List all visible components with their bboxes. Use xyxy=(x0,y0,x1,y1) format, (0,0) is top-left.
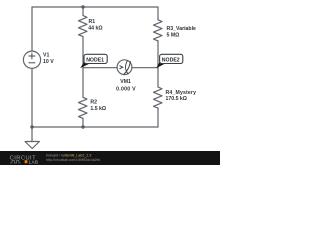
svg-text:http://circuitlab.com/c/59f53d: http://circuitlab.com/c/59f53dc4a2hb xyxy=(46,158,100,162)
svg-text:1.5 kΩ: 1.5 kΩ xyxy=(90,106,106,112)
svg-text:44 kΩ: 44 kΩ xyxy=(88,26,102,32)
svg-text:R3_Variable: R3_Variable xyxy=(167,26,197,32)
svg-text:170.5 kΩ: 170.5 kΩ xyxy=(166,96,187,102)
svg-text:NODE1: NODE1 xyxy=(86,57,104,63)
svg-text:VM1: VM1 xyxy=(120,79,131,85)
svg-text:0.000 V: 0.000 V xyxy=(116,86,136,92)
svg-text:LAB: LAB xyxy=(29,159,39,164)
svg-text:R2: R2 xyxy=(90,100,97,106)
svg-text:5 MΩ: 5 MΩ xyxy=(167,32,180,38)
svg-text:R4_Mystery: R4_Mystery xyxy=(166,90,197,96)
svg-text:bravard / voltsmtk_Lab2_2.3: bravard / voltsmtk_Lab2_2.3 xyxy=(46,153,91,157)
svg-text:10 V: 10 V xyxy=(43,59,54,65)
svg-text:V1: V1 xyxy=(43,52,49,58)
svg-text:NODE2: NODE2 xyxy=(162,57,180,63)
svg-text:R1: R1 xyxy=(89,19,96,25)
